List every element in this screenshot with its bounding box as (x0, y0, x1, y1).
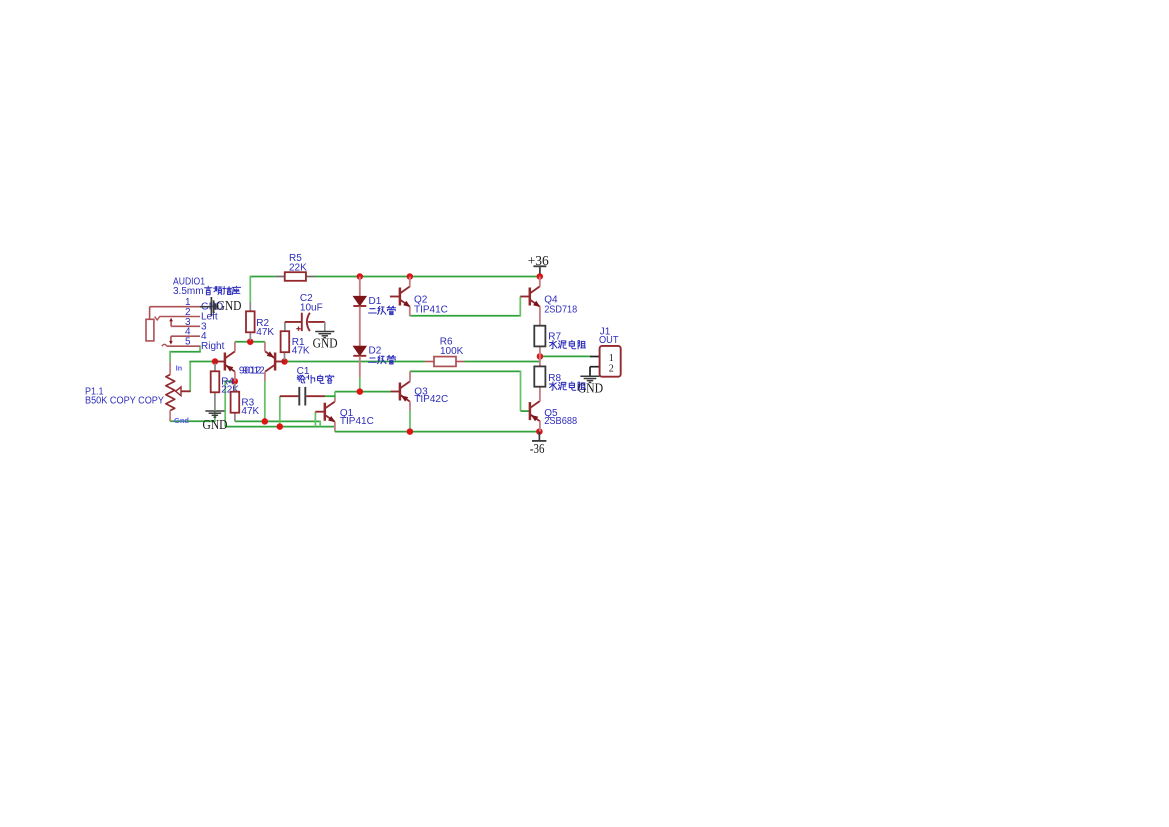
wire (250, 276, 275, 278)
wire (410, 315, 521, 317)
wire (189, 361, 215, 363)
svg-text:GND: GND (203, 418, 228, 433)
wire (199, 345, 201, 351)
wire (285, 361, 425, 363)
ground (J1 pin 2) (578, 376, 604, 396)
svg-text:GND: GND (313, 336, 338, 351)
junction (212, 358, 219, 365)
resistor R7 cement (534, 326, 585, 357)
ground (C2) (313, 322, 338, 352)
wire (225, 426, 335, 428)
capacitor C2 10uF (285, 293, 325, 331)
svg-text:9012: 9012 (242, 365, 265, 376)
svg-text:Gnd: Gnd (174, 416, 189, 425)
svg-text:D1: D1 (369, 296, 382, 307)
svg-text:B50K COPY COPY: B50K COPY COPY (85, 396, 164, 407)
wire (224, 380, 234, 382)
wire (335, 391, 391, 393)
wire (521, 410, 530, 412)
svg-text:5: 5 (185, 337, 191, 348)
resistor R4 22K (211, 363, 240, 411)
svg-text:+36: +36 (528, 253, 549, 268)
transistor Q4 2SD718 (520, 277, 577, 326)
wire (519, 297, 521, 317)
wire (334, 430, 336, 431)
wire (540, 355, 590, 357)
wire (235, 420, 320, 422)
diode D1 (353, 277, 395, 347)
wire (334, 392, 336, 399)
transistor Q5 2SB688 (530, 387, 578, 432)
svg-text:TIP41C: TIP41C (414, 304, 448, 315)
wire (189, 362, 191, 393)
wire (325, 395, 336, 397)
junction (247, 338, 254, 345)
power -36 (530, 432, 547, 456)
diode D2 (353, 346, 395, 378)
junction (357, 273, 364, 280)
wire (410, 370, 521, 372)
wire (169, 351, 171, 362)
svg-text:10uF: 10uF (300, 303, 323, 314)
junction (537, 273, 544, 280)
svg-text:22K: 22K (289, 262, 307, 273)
junction (232, 378, 239, 385)
wire (409, 410, 411, 431)
svg-text:3.5mm: 3.5mm (173, 286, 204, 297)
ground (R4) (203, 411, 228, 433)
wire (214, 411, 216, 422)
svg-text:47K: 47K (256, 327, 274, 338)
capacitor C1 ceramic (280, 366, 334, 405)
wire (464, 361, 539, 363)
svg-text:Right: Right (201, 341, 225, 352)
wire (169, 351, 201, 353)
svg-text:D2: D2 (369, 346, 382, 357)
wire (335, 431, 540, 433)
junction (277, 423, 284, 430)
ground (jack pin 1) (200, 297, 242, 316)
junction (407, 428, 414, 435)
junction (536, 428, 543, 435)
transistor Q2 TIP41C (390, 277, 448, 317)
resistor R5 22K (275, 253, 315, 281)
svg-text:2: 2 (609, 364, 614, 375)
wire (314, 412, 316, 427)
svg-text:47K: 47K (292, 346, 310, 357)
svg-text:OUT: OUT (599, 335, 619, 346)
power +36 (528, 253, 549, 274)
junction (357, 388, 364, 395)
wire (359, 377, 361, 392)
svg-text:GND: GND (217, 299, 242, 314)
svg-text:1: 1 (609, 353, 614, 364)
resistor R6 100K (425, 337, 465, 367)
resistor R3 47K (231, 383, 260, 421)
connector AUDIO1 3.5mm jack (146, 276, 225, 352)
svg-text:In: In (176, 363, 183, 372)
resistor R8 cement (534, 356, 585, 390)
label 9012 9012 (239, 365, 265, 376)
transistor Q 9012 left (215, 342, 235, 382)
wire (235, 341, 265, 343)
svg-text:-36: -36 (530, 441, 545, 456)
wire (224, 381, 226, 427)
svg-text:2SD718: 2SD718 (544, 304, 577, 315)
resistor R1 47K (281, 322, 310, 360)
junction (262, 418, 269, 425)
resistor R2 47K (246, 302, 274, 340)
wire (279, 396, 281, 426)
wire (170, 420, 215, 422)
transistor Q1 TIP41C (315, 398, 373, 431)
svg-text:2SB688: 2SB688 (544, 416, 577, 427)
svg-text:100K: 100K (440, 346, 464, 357)
wire (264, 381, 266, 422)
transistor Q3 TIP42C (391, 371, 449, 410)
wire (520, 371, 522, 412)
junction (407, 273, 414, 280)
label AUDIO1 3.5mm (173, 286, 241, 297)
connector J1 OUT (590, 326, 621, 376)
transistor Q 9012 right (265, 342, 285, 381)
junction (537, 353, 544, 360)
wire (315, 276, 540, 278)
junction (281, 358, 288, 365)
potentiometer P1.1 B50K (85, 362, 190, 425)
wire (249, 276, 251, 303)
svg-text:GND: GND (578, 381, 604, 396)
svg-text:TIP42C: TIP42C (414, 394, 448, 405)
wire (319, 421, 321, 427)
svg-text:TIP41C: TIP41C (340, 416, 374, 427)
svg-text:47K: 47K (241, 406, 259, 417)
